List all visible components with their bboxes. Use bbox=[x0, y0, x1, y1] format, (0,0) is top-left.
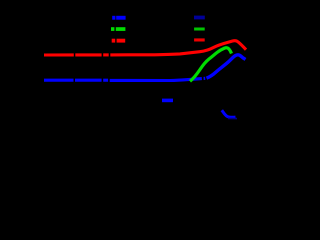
legend 2 navy sample bbox=[194, 16, 205, 20]
legend 2 green sample bbox=[194, 28, 205, 31]
red curve flat short dash bbox=[103, 53, 109, 56]
blue curve flat short dash bbox=[103, 79, 108, 82]
legend 1 green sample (dash-dot) bbox=[111, 27, 125, 31]
blue curve rising section with bump bbox=[207, 55, 246, 78]
red curve flat dash 1 bbox=[44, 53, 74, 56]
red curve main rising segment with peak bbox=[110, 41, 246, 55]
legend 1 blue sample (dash-dot) bbox=[112, 16, 125, 20]
blue annotation dash bbox=[162, 99, 173, 103]
blue curve flat dash 1 bbox=[44, 79, 74, 82]
blue curve flat dash 2 bbox=[75, 79, 102, 82]
legend 1 red sample (dash-dot) bbox=[112, 39, 126, 43]
blue curve short dash on rise bbox=[204, 77, 206, 80]
navy under-tail segment bbox=[228, 117, 237, 119]
red curve flat dash 2 bbox=[75, 53, 101, 56]
green curve bbox=[190, 48, 232, 81]
legend 2 red sample bbox=[194, 38, 205, 41]
blue curve long flat segment bbox=[110, 79, 202, 81]
blue tail arc bbox=[222, 110, 236, 117]
